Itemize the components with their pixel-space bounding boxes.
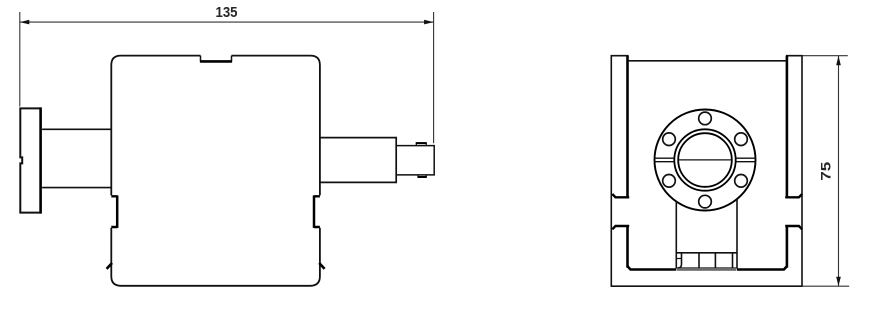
- bore center line: [678, 159, 731, 161]
- extension line bottom: [803, 285, 850, 287]
- bolt hole lower-right: [735, 175, 748, 188]
- body top edge: [629, 60, 786, 62]
- right shaft rectangle: [320, 138, 396, 183]
- left rail top edge: [611, 55, 629, 57]
- cell divider 1 with fillet: [678, 253, 682, 268]
- sliver tick: [677, 258, 681, 260]
- svg-text:135: 135: [216, 5, 238, 21]
- bolt hole upper-right: [735, 133, 748, 146]
- cell divider 4: [732, 253, 734, 268]
- flange outer circle: [655, 110, 756, 211]
- extension line top: [803, 55, 848, 57]
- body outline (rounded rectangle with interruptions): [111, 56, 320, 286]
- bolt hole upper-left: [663, 133, 676, 146]
- bore outer circle: [674, 129, 735, 190]
- left side groove: [111, 196, 117, 227]
- left base top thick edge: [628, 266, 677, 269]
- center block right edge: [736, 199, 738, 268]
- right rail outer edge: [801, 55, 803, 286]
- flange outline: [20, 108, 41, 212]
- cells bottom line: [676, 267, 737, 269]
- arrow left: [20, 20, 30, 25]
- dimension line 75: [838, 56, 840, 287]
- right rail notch bottom cap: [785, 226, 802, 229]
- block bottom thin line: [677, 269, 736, 271]
- bolt hole lower-left: [663, 175, 676, 188]
- left rail inner thick edge upper: [626, 56, 629, 197]
- flange thick right edge: [39, 107, 42, 213]
- right rail notch top cap: [785, 194, 802, 197]
- cell divider 2: [698, 253, 700, 268]
- bottom right hook: [319, 263, 324, 269]
- flange split band left: [655, 158, 675, 162]
- bottom left hook: [107, 263, 112, 269]
- connector top tab: [416, 143, 426, 146]
- shaft left top line: [42, 128, 111, 130]
- arrow bottom: [836, 277, 841, 287]
- left rail notch bottom cap: [612, 226, 629, 229]
- flange split band right: [736, 158, 756, 162]
- bolt hole bottom: [699, 195, 712, 208]
- right base top thick edge: [737, 266, 787, 269]
- right rail inner thick edge upper: [786, 56, 789, 197]
- right rail top edge: [786, 55, 803, 57]
- cell divider 3: [714, 253, 716, 268]
- extension line right: [433, 12, 435, 143]
- arrow top: [836, 56, 841, 65]
- top notch: [201, 56, 232, 62]
- left rail outer edge: [610, 55, 612, 286]
- arrow right: [424, 20, 434, 25]
- bolt hole top: [699, 112, 712, 125]
- right rail inner thick edge lower: [786, 225, 789, 268]
- connector body: [396, 146, 434, 175]
- bore inner circle: [678, 133, 732, 187]
- svg-text:75: 75: [818, 161, 833, 181]
- dimension line 135: [20, 21, 434, 23]
- extension line left: [19, 12, 21, 107]
- right side groove: [314, 196, 320, 227]
- left rail notch top cap: [612, 194, 629, 197]
- shaft left bottom line: [42, 187, 111, 189]
- center block left edge: [675, 201, 677, 268]
- left rail inner thick edge lower: [626, 225, 629, 268]
- body bottom edge: [611, 285, 803, 287]
- center block top line: [676, 252, 737, 254]
- connector bottom tab: [418, 175, 426, 177]
